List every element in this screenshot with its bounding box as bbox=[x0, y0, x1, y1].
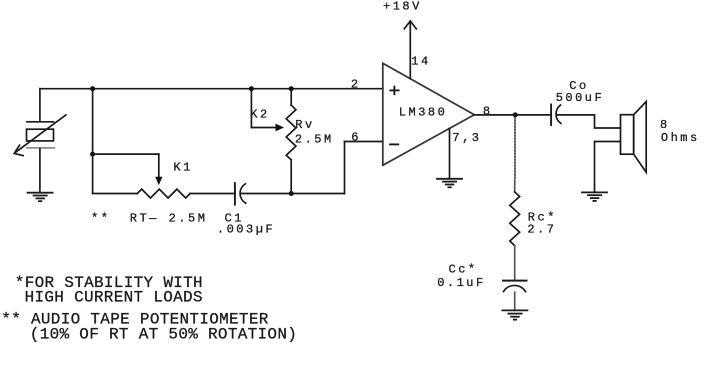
svg-text:+18V: +18V bbox=[383, 0, 422, 13]
transducer (ceramic cartridge) top plate bbox=[27, 121, 54, 123]
wire: bottom rail C1 to pin6 corner bbox=[241, 193, 345, 195]
svg-text:Ohms: Ohms bbox=[661, 131, 700, 145]
+18V arrow head bbox=[404, 21, 416, 29]
svg-text:.003µF: .003µF bbox=[217, 223, 275, 237]
resistor Rc* 2.7 (vertical zigzag) bbox=[510, 192, 520, 246]
ground (below speaker) bbox=[582, 191, 607, 193]
wire: speaker lower terminal to ground bbox=[595, 142, 621, 193]
svg-text:8: 8 bbox=[483, 104, 493, 118]
wiper arrow K2 bbox=[250, 89, 252, 128]
svg-text:8: 8 bbox=[660, 118, 670, 132]
svg-text:2: 2 bbox=[351, 77, 361, 91]
wire: Rv bottom lead bbox=[290, 160, 292, 194]
ground (below pickup) bbox=[28, 192, 53, 194]
capacitor C1 .003uF : left plate bbox=[234, 183, 236, 205]
svg-text:K2: K2 bbox=[250, 107, 269, 121]
wire: short lead into Rc bbox=[514, 180, 516, 192]
transducer variability arrow (diagonal) bbox=[15, 115, 66, 153]
svg-text:LM380: LM380 bbox=[399, 105, 448, 119]
wire: pin 6 vertical riser bbox=[344, 142, 346, 194]
svg-text:14: 14 bbox=[411, 54, 430, 68]
pins 7,3 lead to ground bbox=[449, 128, 451, 178]
node: top rail / K2 junction bbox=[249, 86, 254, 91]
svg-text:7,3: 7,3 bbox=[452, 131, 481, 145]
wire: bottom rail RT to C1 bbox=[190, 193, 235, 195]
node: output / Rc snubber junction bbox=[513, 112, 518, 117]
potentiometer Rv 2.5M (vertical zigzag) bbox=[286, 105, 296, 160]
wire: Co to speaker upper terminal bbox=[557, 115, 621, 128]
capacitor Cc* 0.1uF : top plate bbox=[503, 280, 527, 282]
ground (op-amp pins 7,3) bbox=[437, 178, 462, 180]
svg-text:Rv: Rv bbox=[295, 118, 314, 132]
node: left branch / K1 wiper junction bbox=[90, 152, 95, 157]
potentiometer RT wiper arrow K1 bbox=[158, 154, 160, 178]
wire: bottom rail left segment bbox=[93, 193, 138, 195]
capacitor Cc* : curved bottom plate bbox=[504, 285, 526, 291]
svg-text:K1: K1 bbox=[173, 161, 192, 175]
wire: top rail from pickup to op-amp + input bbox=[40, 88, 383, 90]
wire: dotted lead from output node to Rc bbox=[514, 117, 516, 180]
svg-text:(10% OF RT AT 50% ROTATION): (10% OF RT AT 50% ROTATION) bbox=[30, 325, 297, 343]
wire: pickup top lead bbox=[39, 89, 41, 122]
svg-text:2.5M: 2.5M bbox=[295, 132, 334, 146]
op-amp U1 LM380 triangle bbox=[383, 63, 475, 165]
wire: Cc to ground bbox=[514, 292, 516, 310]
svg-text:500uF: 500uF bbox=[556, 91, 605, 105]
node: top rail / left branch junction bbox=[90, 86, 95, 91]
op-amp - input symbol bbox=[390, 143, 398, 145]
op-amp + input symbol bbox=[390, 89, 398, 91]
wire: left branch vertical (top rail to bottom rail) bbox=[92, 89, 94, 194]
svg-text:0.1uF: 0.1uF bbox=[437, 276, 486, 290]
svg-text:HIGH CURRENT LOADS: HIGH CURRENT LOADS bbox=[25, 289, 203, 307]
transducer body rectangle bbox=[27, 129, 54, 141]
svg-text:Cc*: Cc* bbox=[449, 263, 478, 277]
capacitor C1 : right curved plate bbox=[240, 184, 246, 203]
capacitor Co : right curved plate bbox=[556, 105, 561, 123]
node: top rail / Rv junction bbox=[289, 86, 294, 91]
wire: K1 wiper lead horizontal bbox=[93, 153, 159, 155]
wire: output from pin 8 to Co bbox=[474, 114, 550, 116]
capacitor Co 500uF : left plate bbox=[550, 105, 552, 126]
speaker body rectangle bbox=[621, 115, 634, 155]
pin 14 lead to +18V bbox=[409, 21, 411, 79]
svg-text:2.7: 2.7 bbox=[527, 222, 556, 236]
wire: pickup bottom lead bbox=[39, 149, 41, 193]
node: bottom rail / Rv junction bbox=[289, 191, 294, 196]
ground (below Cc) bbox=[502, 309, 527, 311]
speaker horn bbox=[634, 102, 647, 173]
resistor RT 2.5M (zigzag) bbox=[137, 189, 190, 198]
svg-text:** RT— 2.5M: ** RT— 2.5M bbox=[91, 211, 207, 225]
wire: Rc to Cc bbox=[514, 246, 516, 280]
wire: Rv top lead from top rail bbox=[290, 89, 292, 105]
transducer bottom plate (gray) bbox=[27, 147, 54, 149]
wire: pin 6 horizontal to - input bbox=[345, 141, 383, 143]
svg-text:6: 6 bbox=[351, 131, 361, 145]
